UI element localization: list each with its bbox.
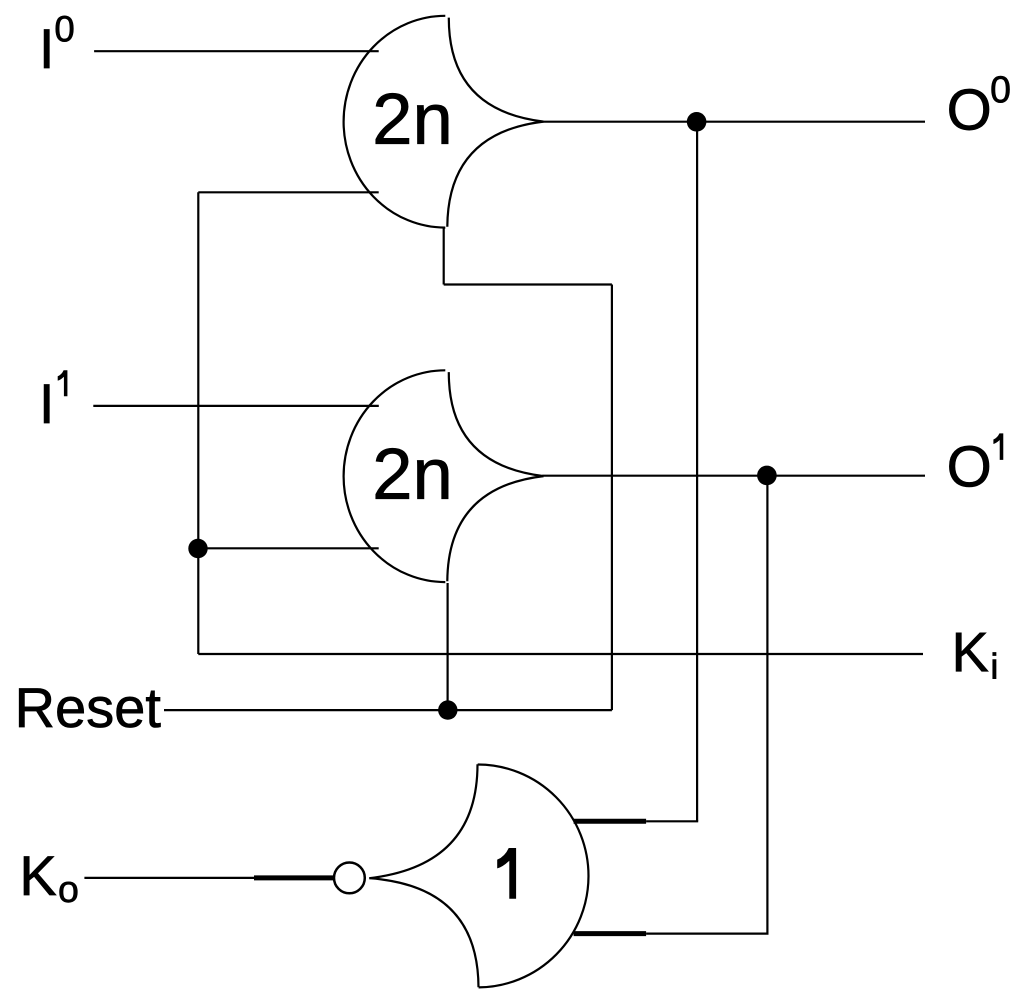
threshold gate U1 (2n, top) — [344, 16, 544, 228]
wire U2 reset tail — [447, 583, 449, 710]
wire U2 lower input — [198, 547, 379, 549]
wire U3 upper output thin segment — [646, 820, 698, 822]
inverter bubble at U3 input — [334, 863, 365, 894]
wire vertical down to Reset line — [611, 285, 613, 711]
wire from O1 node down to U3 lower output — [766, 476, 768, 934]
wire horizontal from U1 tail — [444, 283, 612, 285]
node junction feeding U2 lower input — [188, 539, 207, 558]
label Ko — [24, 857, 77, 903]
label 1 of U3 — [497, 848, 516, 899]
wire from O0 node down to U3 upper output — [696, 122, 698, 822]
node junction on Reset line — [438, 700, 457, 719]
label Reset — [19, 689, 160, 728]
wire I1 to gate U2 — [93, 405, 379, 407]
node junction on O0 line — [687, 112, 707, 132]
wire Reset line — [164, 709, 612, 711]
label I1 — [44, 370, 67, 423]
threshold gate U3 (1, bottom, mirrored) — [369, 764, 588, 987]
wire U1 lower input — [198, 191, 378, 193]
label O0 — [949, 76, 1009, 130]
wire U1 reset tail — [443, 228, 445, 285]
wire U2 output to O1 — [542, 475, 925, 477]
wire Ko thin segment — [84, 877, 254, 879]
label I0 — [44, 16, 73, 68]
wire U3 lower output thin segment — [646, 932, 768, 934]
vertical feedback wire at x=198 — [197, 192, 199, 654]
label O1 — [949, 433, 1003, 487]
label Ki — [956, 633, 996, 679]
wire U3 lower output thick stub — [574, 931, 647, 936]
threshold gate U2 (2n, middle) — [344, 370, 544, 582]
node junction on O1 line — [757, 466, 777, 486]
wire I0 to gate U1 — [94, 50, 379, 52]
wire U1 output to O0 — [544, 121, 926, 123]
label 2n of U2 — [376, 448, 448, 499]
label 2n of U1 — [376, 93, 448, 144]
wire U3 upper output thick stub — [574, 819, 647, 824]
wire Ki line — [198, 653, 923, 655]
wire Ko thick segment — [254, 875, 334, 880]
